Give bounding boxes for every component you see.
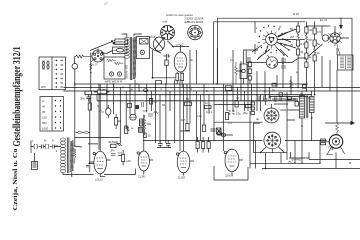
pot box with arrow <box>237 51 247 85</box>
svg-text:g2: g2 <box>279 27 282 29</box>
left small cluster near V1 <box>86 137 94 172</box>
T5 core <box>306 96 308 119</box>
connecting verticals bottom right <box>256 48 338 169</box>
svg-text:µM: µM <box>117 119 122 123</box>
svg-text:µJk10: µJk10 <box>95 178 103 182</box>
cap stack C11 <box>248 57 251 84</box>
speaker LS <box>326 135 345 155</box>
main bus wire 5 <box>97 100 298 102</box>
svg-text:1k: 1k <box>317 51 321 55</box>
wire right vertical feed <box>90 53 92 111</box>
title text: manufacturer <box>13 149 19 211</box>
junction <box>90 72 92 74</box>
chassis outline box top right (outer) <box>218 18 353 123</box>
svg-text:500: 500 <box>42 121 47 125</box>
T1 top leads <box>122 34 142 37</box>
resistor R5 <box>85 91 92 94</box>
svg-text:0,1µ: 0,1µ <box>196 114 202 118</box>
bus marker box <box>225 86 232 91</box>
resistor R9 vertical zigzag <box>143 115 146 135</box>
wave trap coil L1a <box>111 39 128 45</box>
socket view circle S1 <box>161 26 175 40</box>
resistor chain RB <box>305 22 308 74</box>
output arrow <box>325 122 351 124</box>
svg-text:2M: 2M <box>290 35 295 39</box>
resistor R2 in box <box>107 59 116 61</box>
resistor zigzag on left rail <box>74 148 76 164</box>
resistor R10 vertical zigzag <box>235 62 238 84</box>
small dots right mesh <box>265 63 351 170</box>
svg-text:10: 10 <box>236 96 240 100</box>
svg-text:5k: 5k <box>301 50 305 54</box>
bus marker box 2 <box>156 81 162 84</box>
svg-text:µ10: µ10 <box>126 159 131 163</box>
tube V3 <box>176 151 194 176</box>
svg-text:45: 45 <box>42 110 46 114</box>
svg-text:0,5: 0,5 <box>143 109 147 113</box>
svg-text:2A J7: 2A J7 <box>90 63 98 67</box>
label block above S2 <box>185 17 205 24</box>
svg-text:2k: 2k <box>190 58 194 62</box>
svg-text:M: M <box>44 139 47 143</box>
T1 vertical caption <box>125 64 129 79</box>
resistor R3 in box <box>114 62 123 64</box>
heater arrow down to T-EL2 <box>340 18 342 28</box>
tube socket T-EBL <box>260 132 285 153</box>
svg-text:2µ: 2µ <box>300 92 304 96</box>
svg-text:ge: ge <box>130 87 134 91</box>
wire above V5 <box>172 46 189 48</box>
left column small rects <box>251 102 255 115</box>
right vertical rail <box>286 92 288 160</box>
svg-text:4µ: 4µ <box>256 117 260 121</box>
antenna filter chain <box>31 139 60 154</box>
speaker terminal bars <box>321 139 330 145</box>
vertical wire extensions bottom mid <box>250 111 256 169</box>
main bus wire 4 <box>85 94 312 96</box>
socket view circle S2 <box>188 25 203 40</box>
wire vertical mid <box>196 50 198 84</box>
cap row left <box>126 127 134 131</box>
small choke winding A <box>139 119 142 126</box>
sub-box edge around T-EL1 <box>254 22 256 54</box>
antenna transformer T4 core <box>68 138 69 174</box>
svg-text:10: 10 <box>148 134 152 138</box>
small resistor <box>144 133 151 138</box>
oscillator cathode wire <box>153 50 177 78</box>
svg-text:21J92: 21J92 <box>177 176 186 180</box>
svg-text:EL 21: EL 21 <box>320 18 328 22</box>
small box below bus <box>128 104 132 108</box>
svg-text:Gestelleinbauempfänger 312/1: Gestelleinbauempfänger 312/1 <box>12 47 23 147</box>
terminal strip X1 pin ticks <box>55 61 62 88</box>
right mesh verticals upper <box>277 56 330 95</box>
dial lamp La <box>72 64 78 70</box>
main bus wire 2 <box>64 86 360 88</box>
IF transformer T1 core <box>130 37 131 80</box>
cap cluster CC1 <box>148 112 159 117</box>
svg-text:bl: bl <box>190 87 193 91</box>
svg-text:4n: 4n <box>274 99 278 103</box>
tube V2 <box>137 115 153 175</box>
vertical resistor R6 <box>88 98 91 137</box>
cap C5 pair <box>111 153 122 156</box>
pin labels around T-EL1 <box>256 27 287 56</box>
oscillator socket circle <box>153 37 164 51</box>
resistor R13 <box>225 113 228 120</box>
pin circle P2 <box>117 72 121 76</box>
small boxes mid column <box>186 124 221 135</box>
tuner unit box <box>104 57 125 79</box>
svg-text:0,1: 0,1 <box>284 93 288 97</box>
svg-text:1M: 1M <box>309 28 314 32</box>
svg-text:0,1: 0,1 <box>97 104 101 108</box>
T4 bottom wires <box>63 172 94 177</box>
mixer tube V5 <box>174 45 187 74</box>
pilot socket circle next to T-EL2 <box>322 35 328 41</box>
svg-text:40: 40 <box>42 105 46 109</box>
svg-text:Φ–4HΩ: Φ–4HΩ <box>292 158 301 162</box>
terminal strip box X2 <box>40 97 64 132</box>
screen resistor Ra below V5 <box>176 72 179 84</box>
svg-text:R 25: R 25 <box>293 12 299 16</box>
wire chain to T4 <box>60 146 82 147</box>
svg-text:4µ 4µ 25µ: 4µ 4µ 25µ <box>228 112 241 116</box>
svg-text:40/5000: 40/5000 <box>108 140 119 144</box>
wire to oscillator <box>150 47 162 53</box>
trimmer in box <box>140 39 149 45</box>
labels row above <box>196 109 248 119</box>
svg-text:JPk: JPk <box>80 97 85 101</box>
label 4 ohm <box>292 158 301 162</box>
svg-text:1000: 1000 <box>42 127 49 131</box>
svg-text:21N34: 21N34 <box>224 174 234 178</box>
X2 voltage labels <box>42 99 49 131</box>
pin circle P1 <box>109 72 113 76</box>
svg-text:4712: 4712 <box>149 35 156 39</box>
T5 leads <box>302 91 312 126</box>
box around rectifier socket <box>254 123 287 153</box>
svg-text:0,1: 0,1 <box>154 100 158 104</box>
wire lamp to bus <box>74 57 76 147</box>
svg-text:50: 50 <box>293 97 297 101</box>
output transformer T5 winding A <box>300 96 305 119</box>
zigzag resistor right <box>290 80 293 89</box>
IF transformer T1 secondary winding (hatch) <box>133 37 136 79</box>
terminal strip X1 contact symbols <box>42 61 50 69</box>
resistor R8 vertical <box>125 126 128 134</box>
IF can symbol pair <box>130 115 136 121</box>
svg-text:3: 3 <box>56 149 58 153</box>
halo dots around T-EL1 <box>258 25 283 53</box>
tube V4 <box>224 149 243 175</box>
svg-text:JPk: JPk <box>110 149 115 153</box>
svg-text:30k: 30k <box>147 122 152 126</box>
wires top-right mesh <box>243 26 349 63</box>
svg-text:EBL21 EM4: EBL21 EM4 <box>185 20 205 24</box>
IF transformer T1 primary winding (loop chain) <box>124 37 129 58</box>
chassis outline box (inner offset) <box>214 22 306 84</box>
wire under V1-V2 <box>100 169 135 177</box>
electrolytic cap C3 (oval) <box>106 105 111 118</box>
T4 primary winding (loop chain) <box>60 138 65 173</box>
small rects on bus right <box>272 83 306 106</box>
small choke winding B <box>139 128 143 133</box>
pin circle in box <box>140 50 144 54</box>
hum filter zigzag on speaker feed <box>336 123 339 135</box>
resistor R12 between V1 V2 <box>122 150 125 166</box>
svg-text:47µ: 47µ <box>99 110 104 114</box>
tube socket T-EL1 (viewed from below) <box>262 30 281 48</box>
svg-text:21J92: 21J92 <box>137 175 146 179</box>
svg-text:0,1: 0,1 <box>228 121 232 125</box>
svg-text:K: K <box>52 139 54 143</box>
resistor R1b zigzag on feed <box>90 64 92 71</box>
resistor pair above V4 <box>196 137 210 153</box>
mid right link wires <box>253 110 327 141</box>
svg-text:µPb: µPb <box>101 88 106 92</box>
resistor on drop x150 <box>150 99 153 105</box>
wire antenna input diagonal <box>90 42 112 51</box>
labels for chains <box>290 27 321 59</box>
terminal strip X2 pin dots <box>55 100 61 129</box>
extra mesh horizontals right <box>214 97 308 105</box>
horizontal link wires mid <box>75 122 253 144</box>
main bus wire 1 <box>75 83 308 85</box>
squiggle mark <box>288 162 294 164</box>
cap pair group above V3 <box>157 140 171 148</box>
resistor R11 (40/5000) <box>111 144 123 148</box>
caps in right mesh <box>281 59 286 68</box>
svg-text:1M: 1M <box>181 118 186 122</box>
svg-text:50: 50 <box>186 97 190 101</box>
svg-text:150: 150 <box>42 116 47 120</box>
terminal strip box X1 <box>39 57 66 90</box>
svg-text:0,1: 0,1 <box>301 42 305 46</box>
svg-text:0,1: 0,1 <box>230 58 234 62</box>
wires from T-EL1 to cluster <box>252 32 296 58</box>
connector oval on bus <box>143 89 147 92</box>
svg-text:L: L <box>32 139 34 143</box>
earth component <box>32 153 38 170</box>
label row above V4 <box>130 87 241 116</box>
svg-text:µ4 µ2: µ4 µ2 <box>177 43 185 47</box>
extra labels right mesh <box>272 12 312 103</box>
tube socket T-EL3 <box>266 55 277 68</box>
feedback loop wire under V4 <box>214 166 248 180</box>
svg-text:47: 47 <box>104 2 108 6</box>
terminal strip X1 pin dots <box>56 60 63 88</box>
tube socket T-EL2 <box>327 30 343 55</box>
svg-text:0,5: 0,5 <box>317 30 321 34</box>
tube socket T-EM (magic eye) <box>264 104 279 123</box>
tube V1 (output left) <box>89 84 111 177</box>
resistor R4 on bus <box>94 90 110 94</box>
cap bars <box>142 102 144 107</box>
main bus wire 3 <box>64 90 360 92</box>
bus junction dots <box>74 83 315 95</box>
T4 secondary winding (hatch) <box>70 140 73 171</box>
title text: model Gestelleinbauempfaenger 312/1 <box>12 47 23 147</box>
resistor R1 (dial lamp dropper) <box>75 55 91 58</box>
svg-text:je: je <box>295 70 299 74</box>
cap pair row left-mid <box>76 132 90 134</box>
left feed wires <box>85 91 97 100</box>
svg-text:Sperrkr. 468: Sperrkr. 468 <box>125 64 129 79</box>
svg-text:1Ph: 1Ph <box>41 85 46 89</box>
wire trap to socket <box>101 51 113 54</box>
screen resistor Rb below V5 <box>181 72 184 87</box>
coil unit box right of T1 <box>136 37 149 59</box>
svg-text:a: a <box>256 28 258 30</box>
T5 winding B <box>310 97 315 113</box>
cap C2 below <box>87 95 91 102</box>
svg-text:f: f <box>276 53 277 55</box>
misc value labels scattered <box>97 58 299 125</box>
svg-text:5k: 5k <box>317 42 321 46</box>
svg-text:Czeija, Nissl u. Co: Czeija, Nissl u. Co <box>13 149 19 211</box>
vertical wire drops <box>99 48 270 151</box>
caps row on line y98 <box>258 96 282 101</box>
resistor chain RC <box>313 22 316 65</box>
svg-text:EM4: EM4 <box>281 108 287 112</box>
cap cluster left of V5 <box>164 54 171 85</box>
mains transformer box top right <box>338 55 354 70</box>
svg-text:und: und <box>163 20 168 24</box>
svg-text:0,1 2: 0,1 2 <box>206 110 213 114</box>
twin circles component <box>218 131 226 137</box>
svg-text:MFE WE M R: MFE WE M R <box>105 79 122 83</box>
tube socket V0 (viewed from below) <box>91 48 104 62</box>
svg-text:25µ: 25µ <box>243 111 248 115</box>
bottom right bus wires <box>250 158 360 169</box>
svg-text:30: 30 <box>55 144 59 148</box>
bottom small components row <box>185 95 268 109</box>
dark cap blob <box>136 105 140 109</box>
wire S1 to mixer <box>167 41 174 48</box>
svg-text:50: 50 <box>309 38 313 42</box>
svg-text:1n: 1n <box>205 101 209 105</box>
svg-text:w: w <box>42 99 45 103</box>
resistor R7 vertical <box>115 114 118 129</box>
wave trap coil L1b <box>113 47 128 54</box>
resistor chain RA (top right) <box>297 22 300 62</box>
svg-text:rt: rt <box>160 87 162 91</box>
svg-text:50: 50 <box>162 103 166 107</box>
